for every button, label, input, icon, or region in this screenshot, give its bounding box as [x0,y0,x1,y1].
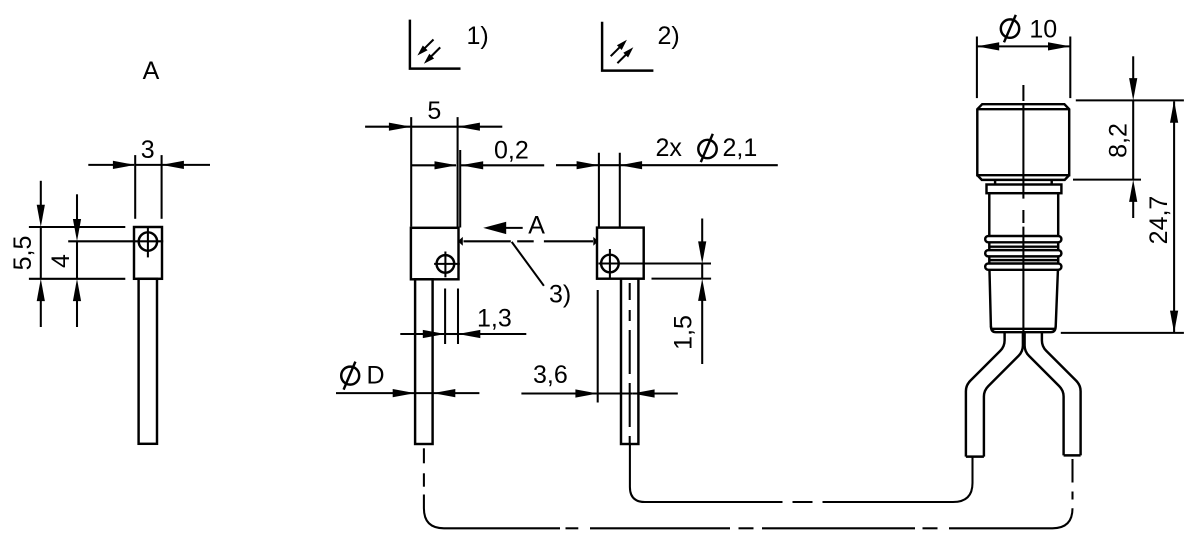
tube left inner edge [984,332,1023,456]
dim 5,5 line top [40,181,42,206]
dim 3 extension line left [134,155,136,219]
dim 8,2 line bottom [1132,201,1134,218]
svg-text:3,6: 3,6 [533,361,568,389]
dim 3 line middle [135,164,161,166]
dim dia D arrow left [393,389,415,397]
dim 3 line right [162,164,210,166]
dim 1,3 line middle [445,333,458,335]
dim dia 10 arrow left [977,42,999,50]
dim 1,3 line left [400,333,444,335]
dim dia 10 extension left [976,37,978,99]
dim 5 line left [365,126,410,128]
dim dia D line middle [415,392,433,394]
axis end tick right [593,237,598,246]
barrel bottom edge [991,326,1056,332]
dim dia D line right [433,392,479,394]
tail 2 center line dash-dot [629,283,631,300]
grip rib 3 [985,264,1061,270]
svg-text:5: 5 [427,97,441,125]
optical axis line between heads [464,240,511,242]
dim 5 / 0,2 extension right [457,117,459,227]
dim 1,5 line top [701,219,703,242]
dim 5 line middle [411,126,457,128]
grip rib 2 [985,250,1061,256]
grip rib 1 [985,236,1061,242]
svg-text:D: D [367,362,385,390]
head 1 fiber tail [415,279,433,444]
svg-text:3): 3) [549,281,571,309]
svg-text:24,7: 24,7 [1145,196,1173,245]
dim dia 10 symbol [1001,19,1019,37]
dim 1,3 line right [458,333,526,335]
tube left end tick [966,455,984,457]
dim 0,2 line right [461,164,544,166]
dim 5 arrow right [458,123,480,131]
dim 24,7 line [1173,102,1175,333]
cap bottom skirt [977,175,1069,180]
head 2 cross horizontal + 1,5 extension top [599,262,712,264]
axis end tick left [458,237,463,246]
neck tick right [1050,180,1052,185]
dim 24,7 arrow top [1170,100,1178,122]
tube left outer edge [966,332,1005,456]
fiber tail (side view) [139,279,157,444]
svg-text:8,2: 8,2 [1105,123,1133,158]
dim 1,3 arrow left [423,330,445,338]
tube right outer edge [1042,332,1081,455]
dim 3,6 extension left [597,290,599,403]
dim 8,2 / 24,7 shared extension top [1076,99,1184,101]
dim dia 10 line [977,45,1070,47]
svg-text:3: 3 [141,136,155,164]
dim 2,1 extension left [598,153,600,228]
cap inner top line [977,108,1069,110]
dim 8,2 line middle [1132,100,1134,179]
dim 4 line top [76,194,78,219]
cable 1 horizontal dash-dot run [566,527,579,529]
dim 0,2 arrow left [435,161,457,169]
dim 4 line middle [76,241,78,278]
head 1 cross vertical [444,252,446,278]
dim dia 10 arrow right [1048,42,1070,50]
svg-text:2,1: 2,1 [723,134,758,162]
svg-text:0,2: 0,2 [494,137,529,165]
tube right inner edge [1025,332,1064,455]
dim 4 line bottom [76,301,78,328]
dim 1,5 extension bottom [652,278,712,280]
washer ring [987,185,1062,194]
svg-text:A: A [528,212,545,240]
dim 0,2 line left [411,164,456,166]
head 2 fiber tail [621,279,638,444]
dim 24,7 arrow bottom [1170,311,1178,333]
dim 2,1 extension right [619,153,621,228]
svg-text:A: A [143,57,160,85]
dim 2,1 arrow left [577,161,599,169]
dim 8,2 arrow top [1129,78,1137,100]
barrel right side [1056,193,1059,326]
symbol 2 corner [602,22,653,71]
svg-text:2): 2) [658,22,680,50]
dim 8,2 arrow bottom [1129,180,1137,202]
cable 1 dashes below tail [423,448,425,463]
dim 5,5 line middle [40,227,42,279]
connector center line [1022,85,1024,101]
tube right end tick [1064,454,1081,456]
cable 1 curve up into connector [949,508,1073,528]
cable 1 dash near connector [1071,459,1073,483]
sensor head body (side view) [134,227,162,279]
dim 3 extension line right [161,155,163,219]
svg-text:1): 1) [467,22,489,50]
dim 1,3 arrow right [458,330,480,338]
dim 3,6 arrow right [632,389,654,397]
dim 4 arrow top [73,219,81,241]
symbol 1 arrow a [424,40,433,49]
dim 2,1 arrow right [620,161,642,169]
dim 0,2 second extension [459,150,461,228]
svg-text:1,5: 1,5 [670,315,698,350]
head 2 body [597,228,644,279]
dim 3 arrow left [113,161,135,169]
dim 1,3 extension right [457,289,459,345]
dim 4 extension / optical axis line [68,240,163,242]
dim 1,3 extension left [444,289,446,345]
dim 2,1 line middle [599,164,620,166]
cable 1 short dash near connector [1071,492,1073,500]
dim 5,5 arrow bottom [37,279,45,301]
optical axis circle [139,232,157,250]
head 1 fiber circle [437,255,455,273]
dim 3,6 arrow left [575,389,597,397]
groove line 2 [989,259,1058,261]
symbol 2 arrow a [611,47,620,56]
cable 2 solid line [630,445,783,503]
leader line for 3) [512,242,544,286]
symbol 1 corner [410,20,461,69]
barrel bottom inner line [991,328,1056,330]
dim 0,2 arrow right [461,161,483,169]
head 2 fiber circle [601,255,619,273]
dim 3,6 line middle [598,392,633,394]
head 1 cross horizontal [434,263,460,265]
groove line 1 [989,245,1058,247]
optical axis cross vertical [147,228,149,258]
dim 1,5 arrow top [698,241,706,263]
dim dia 10 extension right [1069,37,1071,99]
symbol 2 arrow b [617,54,626,63]
dim 3,6 line right [632,392,678,394]
connector cap outline [977,104,1069,175]
dim 5,5 extension bottom [29,278,125,280]
symbol 1 arrow b [431,47,441,57]
dim 3 line left [88,164,134,166]
dim 5 line right [458,126,503,128]
neck tick left [994,180,996,185]
svg-text:10: 10 [1029,16,1057,44]
dim 3,6 line left [521,392,597,394]
dim 5 arrow left [389,123,411,131]
dim 8,2 extension bottom [1073,179,1141,181]
svg-text:2x: 2x [656,134,683,162]
dim 2,1 line right [620,164,778,166]
head 1 body [411,228,459,279]
dim 1,5 line bottom [701,300,703,364]
dim dia D symbol [341,367,359,385]
barrel left side [989,193,991,326]
cable 1 curve into horizontal run [424,495,560,529]
dim 4 arrow bottom [73,279,81,301]
view arrow A [483,222,506,234]
dim 5,5 line bottom [40,301,42,328]
dim 5,5 arrow top [37,205,45,227]
svg-text:1,3: 1,3 [477,305,512,333]
dim 24,7 extension bottom [1061,332,1184,334]
dim 5 extension left [410,117,412,226]
head 2 cross vertical [609,249,611,278]
dim 5,5 extension top [29,226,125,228]
dim 8,2 line top [1132,56,1134,79]
dim 3 arrow right [162,161,184,169]
dim 2,1 line left [556,164,598,166]
dim 1,5 line middle [701,264,703,279]
svg-text:5,5: 5,5 [9,236,37,271]
dim dia D line left [336,392,414,394]
svg-text:4: 4 [47,254,75,268]
dim 1,5 arrow bottom [698,279,706,301]
dim dia D arrow right [433,389,455,397]
